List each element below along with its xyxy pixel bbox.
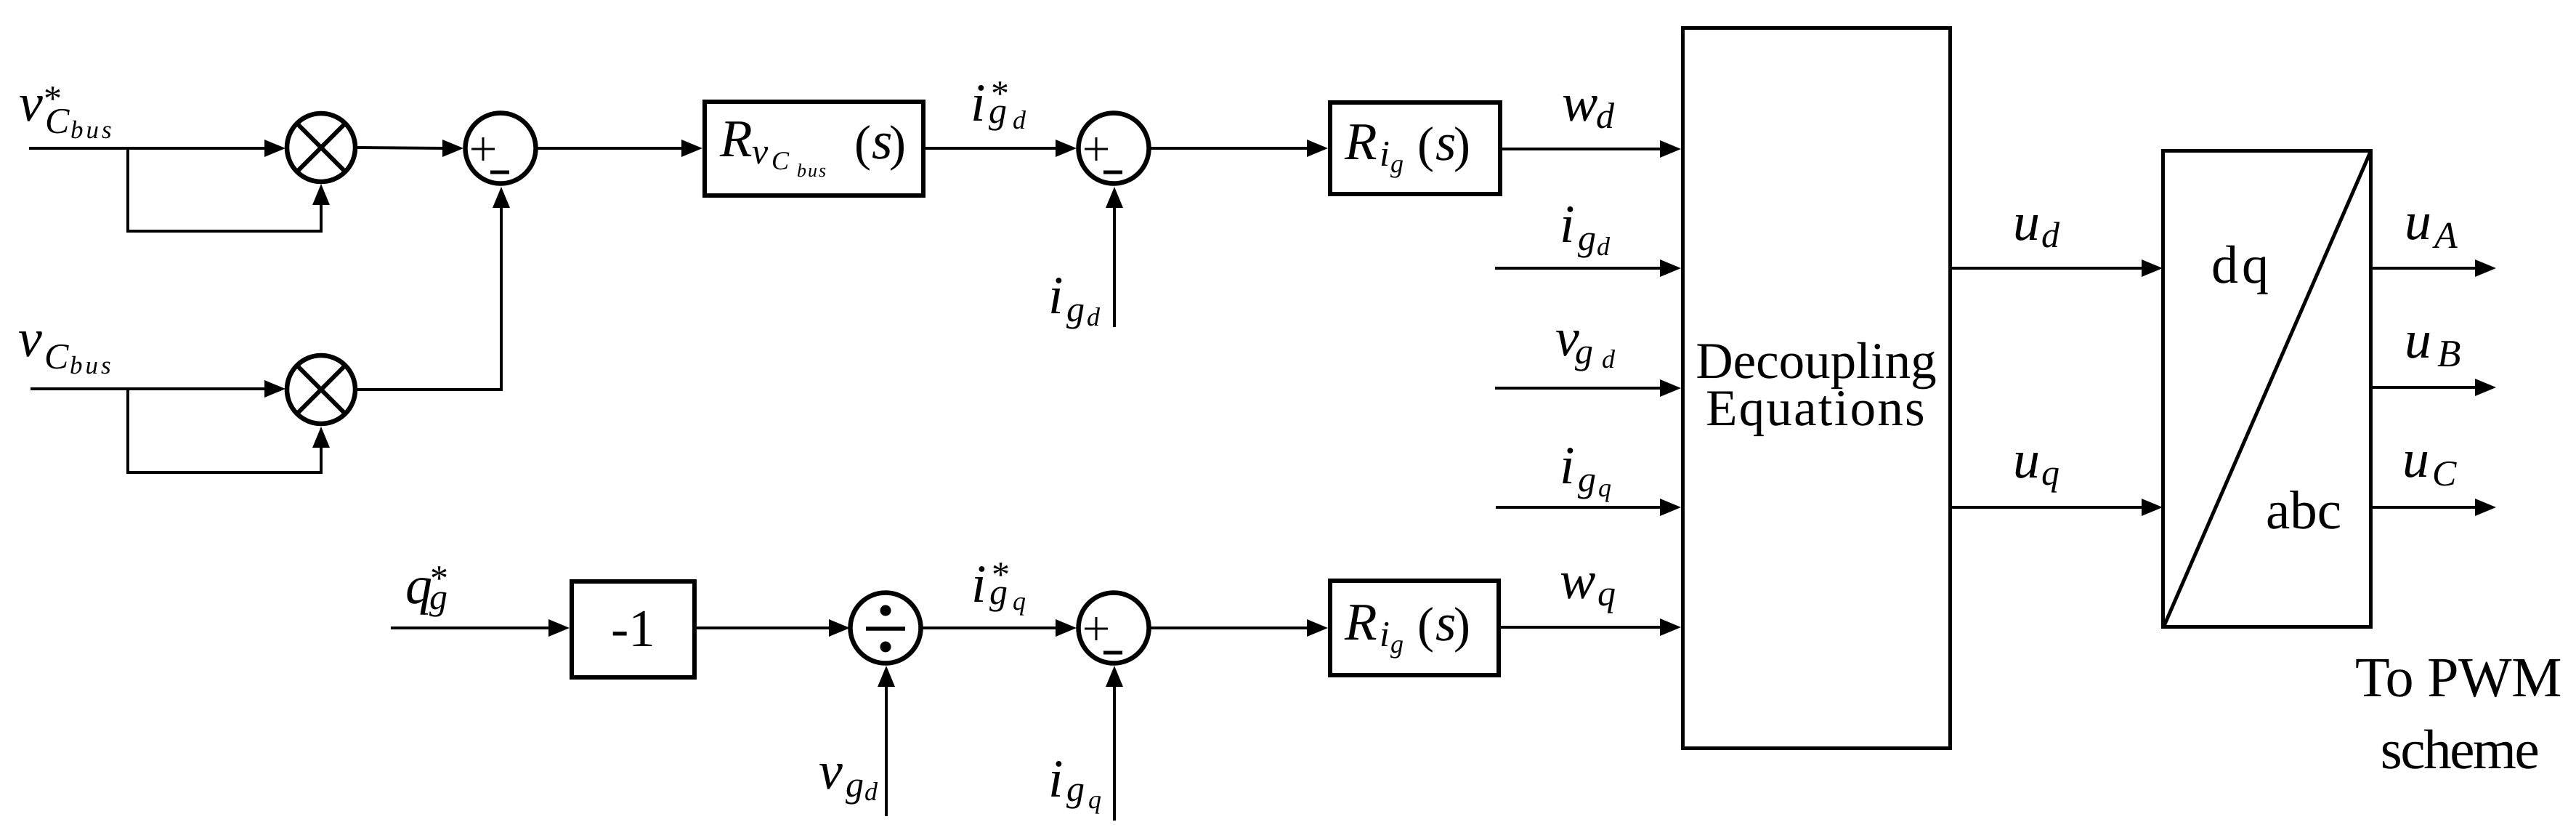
node i*_gd label [971,73,1026,134]
wire R_ig2 to decoupling box (w_q) [1499,626,1664,629]
node v_Cbus label [18,309,114,379]
svg-text:R: R [1344,112,1377,171]
wire v_gd up into divider D1 [885,683,888,816]
svg-text:To PWM: To PWM [2355,645,2561,709]
svg-text:g: g [846,764,864,805]
block -1 [572,581,694,677]
node w_d label [1562,73,1615,136]
block dq/abc transform [2163,151,2371,627]
wire i_gq up into S3 [1113,683,1116,821]
svg-text:abc: abc [2266,480,2341,541]
wire branch of v_Cbus into X2 bottom [128,389,321,472]
svg-text:g: g [1066,768,1085,809]
wire X2 up into S1 bottom [357,206,501,390]
summing junction S1 [466,113,536,184]
svg-text:): ) [889,116,906,171]
svg-text:(: ( [1417,597,1434,653]
wire u_C output [2373,506,2477,509]
note To PWM scheme [2355,645,2561,781]
wire -1 to divider D1 [694,626,833,629]
svg-text:w: w [1562,73,1597,133]
wire S3 to block R_ig2 [1149,626,1309,629]
svg-text:d: d [1087,302,1101,331]
wire X1 to summing junction S1 [357,148,445,148]
node u_q label [2013,430,2059,493]
wire v*_Cbus to multiplier X1 [29,147,269,150]
node i*_gq label [971,554,1026,616]
svg-text:dq: dq [2211,235,2272,295]
svg-text:scheme: scheme [2381,718,2538,781]
svg-text:): ) [1454,117,1470,172]
svg-text:v: v [819,741,843,801]
svg-text:C: C [45,100,70,141]
summing junction S3 [1079,593,1149,664]
wire v_gd into decoupling box [1495,387,1664,390]
node v_gd label below divider [819,741,878,806]
wire branch of v*_Cbus into X1 bottom [128,148,321,231]
svg-text:d: d [1013,105,1026,134]
wire u_d decoupling to dq box [1952,267,2145,270]
svg-text:q: q [1598,473,1611,502]
svg-text:g: g [989,90,1007,131]
svg-text:g: g [1390,629,1404,658]
node u_d label [2013,193,2060,255]
svg-text:bus: bus [70,116,115,144]
node q*_g label [405,556,448,617]
wire D1 to summing junction S3 [921,626,1058,629]
node i_gd input label (decoupling row2) [1560,195,1611,261]
svg-text:u: u [2405,310,2431,370]
svg-text:bus: bus [797,160,827,181]
svg-text:d: d [864,777,878,806]
svg-text:g: g [1578,217,1596,258]
node u_B label [2405,310,2460,375]
svg-text:d: d [1602,345,1616,374]
svg-text:w: w [1560,551,1595,611]
svg-text:g: g [1575,331,1593,371]
svg-text:i: i [971,555,987,614]
wire S1 to block R_vCbus [537,147,686,150]
wire q*_g to block -1 [391,626,552,629]
svg-text:R: R [1344,592,1377,651]
svg-text:u: u [2013,430,2040,490]
multiplier X1 [287,113,355,182]
node i_gq label below S3 [1048,749,1101,814]
svg-text:v: v [19,73,43,133]
wire u_A output [2373,267,2477,270]
wire u_B output [2373,386,2477,389]
svg-text:C: C [44,336,69,376]
summing junction S2 [1079,113,1149,184]
svg-text:A: A [2432,215,2458,257]
svg-text:g: g [1390,149,1404,178]
wire S2 to block R_ig1 [1149,147,1309,150]
divider D1 [851,593,921,664]
block Decoupling Equations [1683,28,1951,749]
svg-text:v: v [752,131,769,172]
svg-text:g: g [1066,289,1085,329]
node w_q label [1560,551,1616,613]
svg-text:u: u [2402,430,2429,489]
node v*_Cbus label [19,73,115,144]
svg-text:C: C [771,146,790,175]
wire i_gd up into S2 [1113,204,1116,327]
node u_A label [2405,192,2458,257]
svg-text:q: q [405,556,432,616]
svg-text:i: i [1380,613,1390,654]
svg-text:): ) [1454,597,1470,653]
svg-text:d: d [2041,214,2060,255]
svg-text:B: B [2437,333,2460,375]
svg-text:R: R [719,109,753,168]
wire u_q decoupling to dq box [1952,506,2145,509]
svg-text:g: g [429,576,447,617]
wire i_gq into decoupling box [1496,506,1664,509]
node i_gq input label (decoupling row4) [1560,436,1611,502]
svg-text:i: i [1380,133,1390,174]
svg-text:i: i [1560,436,1575,496]
svg-text:u: u [2405,192,2431,251]
wire i_gd into decoupling box [1495,267,1664,270]
svg-text:i: i [1048,266,1064,326]
block R_ig1 (s) [1330,102,1500,194]
wire v_Cbus to multiplier X2 [31,387,269,390]
wire R_vCbus to summing junction S2 [926,147,1058,150]
svg-text:q: q [1013,587,1026,616]
svg-text:i: i [1048,749,1064,809]
svg-text:g: g [1578,459,1596,499]
block R_vCbus(s) [705,102,923,196]
svg-text:g: g [989,571,1008,612]
svg-text:i: i [1560,195,1575,254]
block R_ig2 (s) [1330,581,1499,675]
svg-text:d: d [1597,232,1611,261]
svg-text:Equations: Equations [1706,380,1927,437]
svg-text:(: ( [854,116,871,171]
node i_gd feedback label (row1) [1048,266,1101,331]
svg-text:i: i [971,73,986,133]
node u_C label [2402,430,2457,493]
multiplier X2 [287,355,355,424]
svg-text:u: u [2013,193,2040,252]
svg-text:bus: bus [70,351,114,379]
svg-text:(: ( [1417,117,1434,172]
svg-text:v: v [18,309,42,368]
node v_gd input label (decoupling row3) [1555,308,1616,374]
svg-text:q: q [1597,573,1616,613]
wire R_ig1 to decoupling box (w_d) [1502,148,1664,150]
svg-text:C: C [2432,453,2457,493]
svg-text:-1: -1 [611,599,655,658]
svg-text:d: d [1596,95,1615,136]
svg-text:q: q [1088,785,1101,814]
svg-text:q: q [2041,452,2059,493]
